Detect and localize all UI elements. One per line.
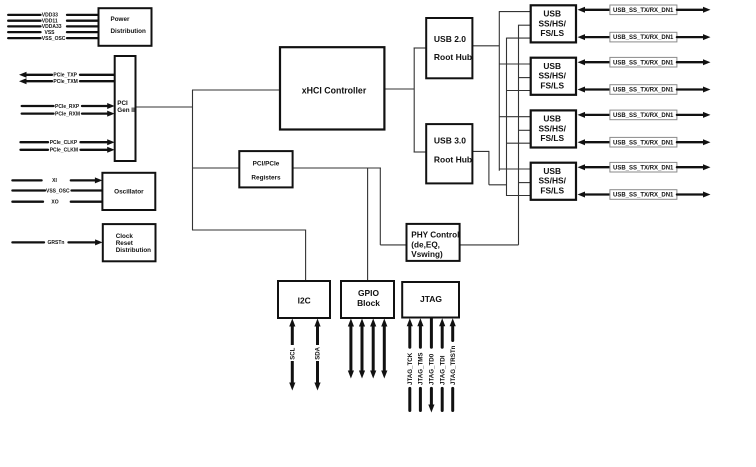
svg-text:PHY Control: PHY Control: [411, 230, 459, 239]
svg-text:SS/HS/: SS/HS/: [538, 18, 566, 28]
svg-text:PCI/PCIe: PCI/PCIe: [253, 161, 280, 168]
svg-text:SS/HS/: SS/HS/: [538, 123, 566, 133]
svg-text:Oscillator: Oscillator: [114, 189, 144, 196]
svg-text:PCIe_CLKP: PCIe_CLKP: [50, 140, 78, 146]
svg-text:PCIe_CLKM: PCIe_CLKM: [50, 148, 78, 154]
svg-text:JTAG: JTAG: [420, 294, 442, 304]
svg-text:USB: USB: [543, 166, 561, 176]
svg-text:JTAG_TMS: JTAG_TMS: [418, 352, 425, 385]
svg-text:USB: USB: [543, 9, 561, 19]
svg-text:Clock: Clock: [116, 233, 134, 240]
svg-text:USB 2.0: USB 2.0: [434, 34, 466, 44]
svg-text:USB 3.0: USB 3.0: [434, 136, 466, 146]
svg-text:USB: USB: [543, 114, 561, 124]
svg-text:I2C: I2C: [298, 295, 311, 305]
svg-text:USB_SS_TX/RX_DN1: USB_SS_TX/RX_DN1: [613, 113, 674, 119]
svg-text:USB_SS_TX/RX_DN1: USB_SS_TX/RX_DN1: [613, 165, 674, 171]
svg-text:FS/LS: FS/LS: [540, 133, 564, 143]
svg-text:Root Hub: Root Hub: [434, 155, 472, 165]
svg-text:SDA: SDA: [316, 346, 322, 359]
svg-text:USB_SS_TX/RX_DN1: USB_SS_TX/RX_DN1: [613, 193, 674, 199]
svg-text:USB_SS_TX/RX_DN1: USB_SS_TX/RX_DN1: [613, 8, 674, 14]
svg-text:USB_SS_TX/RX_DN1: USB_SS_TX/RX_DN1: [613, 35, 674, 41]
svg-text:USB_SS_TX/RX_DN1: USB_SS_TX/RX_DN1: [613, 140, 674, 146]
svg-text:USB_SS_TX/RX_DN1: USB_SS_TX/RX_DN1: [613, 60, 674, 66]
svg-text:USB_SS_TX/RX_DN1: USB_SS_TX/RX_DN1: [613, 88, 674, 94]
svg-text:JTAG_TDI: JTAG_TDI: [439, 355, 446, 385]
svg-text:USB: USB: [543, 61, 561, 71]
svg-text:Gen II: Gen II: [117, 107, 135, 114]
svg-text:JTAG_TCK: JTAG_TCK: [407, 352, 414, 385]
svg-text:PCIe_TXP: PCIe_TXP: [53, 73, 77, 79]
svg-text:Reset: Reset: [116, 240, 134, 247]
svg-text:Distribution: Distribution: [116, 247, 151, 254]
svg-text:SCL: SCL: [291, 347, 297, 359]
svg-text:Power: Power: [111, 16, 130, 23]
svg-text:PCI: PCI: [117, 100, 128, 107]
svg-text:JTAG_TD0: JTAG_TD0: [429, 353, 436, 385]
svg-text:FS/LS: FS/LS: [540, 28, 564, 38]
svg-text:PCIe_RXP: PCIe_RXP: [55, 104, 80, 110]
svg-text:Distribution: Distribution: [111, 28, 146, 35]
svg-text:VSS_OSC: VSS_OSC: [42, 36, 66, 42]
svg-text:Vswing): Vswing): [411, 250, 443, 259]
svg-text:PCIe_RXM: PCIe_RXM: [55, 111, 80, 117]
svg-text:VSS_OSC: VSS_OSC: [46, 188, 70, 194]
svg-text:(de,EQ,: (de,EQ,: [411, 241, 440, 250]
svg-text:Root Hub: Root Hub: [434, 52, 472, 62]
svg-text:SS/HS/: SS/HS/: [538, 176, 566, 186]
svg-text:Block: Block: [357, 298, 380, 308]
svg-text:GPIO: GPIO: [358, 288, 379, 298]
svg-text:FS/LS: FS/LS: [540, 81, 564, 91]
svg-text:FS/LS: FS/LS: [540, 186, 564, 196]
svg-text:GRSTn: GRSTn: [48, 240, 65, 246]
svg-text:XI: XI: [52, 178, 57, 184]
svg-text:xHCI Controller: xHCI Controller: [302, 85, 367, 95]
svg-text:Registers: Registers: [251, 175, 281, 182]
svg-text:SS/HS/: SS/HS/: [538, 71, 566, 81]
svg-text:PCIe_TXM: PCIe_TXM: [53, 79, 77, 85]
svg-text:XO: XO: [51, 200, 58, 206]
svg-text:JTAG_TRSTn: JTAG_TRSTn: [450, 345, 457, 385]
